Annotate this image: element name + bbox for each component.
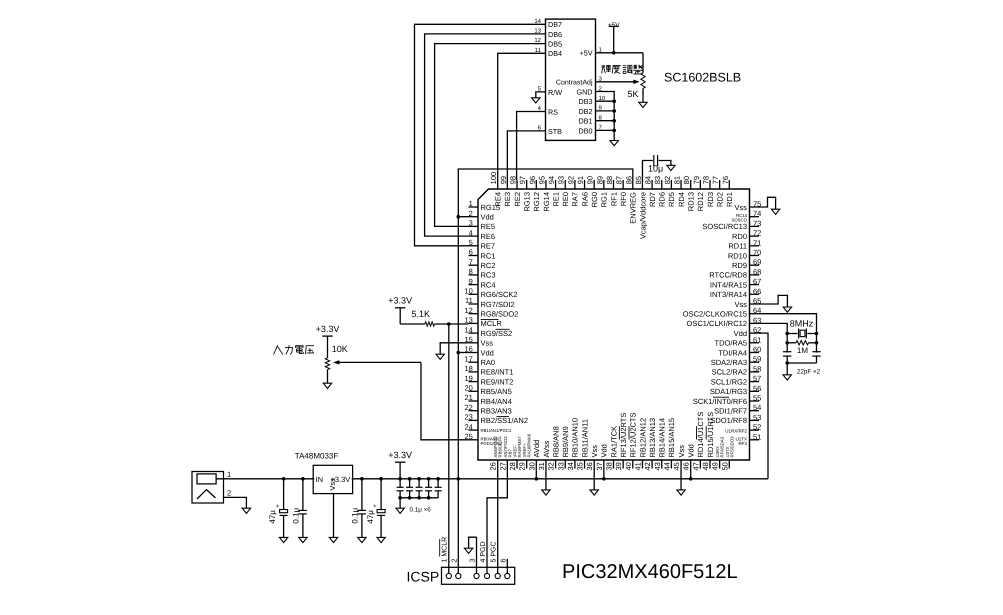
svg-text:69: 69 <box>753 258 761 267</box>
svg-text:RA7: RA7 <box>571 192 580 207</box>
svg-text:92: 92 <box>566 176 575 184</box>
svg-text:26: 26 <box>489 462 498 470</box>
svg-text:28: 28 <box>508 462 517 470</box>
svg-text:51: 51 <box>753 432 761 441</box>
svg-text:GND: GND <box>577 87 593 96</box>
svg-text:Vss: Vss <box>328 478 337 491</box>
svg-text:4: 4 <box>469 228 473 237</box>
svg-text:DB7: DB7 <box>548 20 562 29</box>
svg-text:1M: 1M <box>797 346 808 355</box>
svg-text:RF1: RF1 <box>609 192 618 206</box>
svg-text:+: + <box>276 504 280 510</box>
svg-text:RA1/TCK: RA1/TCK <box>609 426 618 458</box>
svg-text:RD10: RD10 <box>728 251 747 260</box>
svg-text:RD1: RD1 <box>725 192 734 207</box>
svg-text:49: 49 <box>711 462 720 470</box>
svg-text:RD2: RD2 <box>715 192 724 207</box>
svg-text:RB4/AN4: RB4/AN4 <box>481 397 512 406</box>
svg-text:89: 89 <box>595 176 604 184</box>
svg-text:RE6: RE6 <box>481 232 496 241</box>
svg-text:46: 46 <box>682 462 691 470</box>
svg-text:PIC32MX460F512L: PIC32MX460F512L <box>562 561 738 583</box>
svg-text:73: 73 <box>753 219 761 228</box>
svg-text:TDO/RA5: TDO/RA5 <box>714 339 747 348</box>
svg-text:RD15/U1RTS: RD15/U1RTS <box>706 412 715 458</box>
svg-text:RD6: RD6 <box>658 192 667 207</box>
svg-text:RD14/U1CTS: RD14/U1CTS <box>696 412 705 458</box>
svg-text:DB0: DB0 <box>579 126 593 135</box>
svg-text:RE5: RE5 <box>481 222 496 231</box>
svg-text:76: 76 <box>721 176 730 184</box>
svg-text:2: 2 <box>451 559 458 563</box>
svg-text:10: 10 <box>464 287 472 296</box>
svg-text:RE7: RE7 <box>481 242 496 251</box>
svg-text:83: 83 <box>653 176 662 184</box>
svg-text:57: 57 <box>753 374 761 383</box>
svg-text:RG14: RG14 <box>542 192 551 212</box>
svg-text:91: 91 <box>576 176 585 184</box>
svg-text:RG8/SDO2: RG8/SDO2 <box>481 310 519 319</box>
svg-text:27: 27 <box>498 462 507 470</box>
svg-text:45: 45 <box>672 462 681 470</box>
svg-text:RG0: RG0 <box>590 192 599 207</box>
svg-text:80: 80 <box>682 176 691 184</box>
svg-text:DB1: DB1 <box>579 117 593 126</box>
svg-text:RD7: RD7 <box>648 192 657 207</box>
svg-text:RG13: RG13 <box>522 192 531 212</box>
svg-text:12: 12 <box>464 306 472 315</box>
svg-text:RC3: RC3 <box>481 271 496 280</box>
svg-text:100: 100 <box>489 172 498 185</box>
svg-text:93: 93 <box>557 176 566 184</box>
svg-text:RD13: RD13 <box>687 192 696 211</box>
svg-text:RD4: RD4 <box>677 192 686 207</box>
svg-text:48: 48 <box>701 462 710 470</box>
svg-text:87: 87 <box>615 176 624 184</box>
svg-text:SDO1/RF8: SDO1/RF8 <box>710 416 747 425</box>
svg-text:+3.3V: +3.3V <box>388 296 412 306</box>
svg-text:66: 66 <box>753 287 761 296</box>
svg-text:MCLR: MCLR <box>481 319 503 328</box>
svg-text:RD3: RD3 <box>706 192 715 207</box>
svg-text:67: 67 <box>753 277 761 286</box>
svg-text:0.1μ: 0.1μ <box>351 507 360 523</box>
svg-text:6: 6 <box>469 248 473 257</box>
svg-text:U1RX/RF2: U1RX/RF2 <box>725 428 747 433</box>
svg-text:20: 20 <box>464 384 472 393</box>
svg-text:Vdd: Vdd <box>600 444 609 457</box>
svg-text:Vdd: Vdd <box>481 213 494 222</box>
svg-text:40: 40 <box>624 462 633 470</box>
svg-text:RD0: RD0 <box>732 232 747 241</box>
svg-text:Vss: Vss <box>677 445 686 458</box>
svg-text:SCL2/RA2: SCL2/RA2 <box>712 368 747 377</box>
svg-text:68: 68 <box>753 267 761 276</box>
svg-text:3: 3 <box>469 219 473 228</box>
svg-text:RS: RS <box>548 107 558 116</box>
svg-text:RE4: RE4 <box>494 192 503 207</box>
svg-text:23: 23 <box>464 413 472 422</box>
svg-text:DB4: DB4 <box>548 49 562 58</box>
svg-text:72: 72 <box>753 229 761 238</box>
svg-text:ICSP: ICSP <box>407 569 440 585</box>
svg-text:+5V: +5V <box>608 22 620 29</box>
svg-text:9: 9 <box>469 277 473 286</box>
svg-text:74: 74 <box>753 209 761 218</box>
svg-text:70: 70 <box>753 248 761 257</box>
svg-text:38: 38 <box>605 462 614 470</box>
svg-text:0.1μ ×6: 0.1μ ×6 <box>410 507 432 514</box>
svg-text:DB6: DB6 <box>548 30 562 39</box>
svg-text:39: 39 <box>614 462 623 470</box>
svg-text:DB5: DB5 <box>548 40 562 49</box>
svg-text:52: 52 <box>753 423 761 432</box>
svg-text:2: 2 <box>227 488 231 497</box>
svg-text:RG7/SDI2: RG7/SDI2 <box>481 300 515 309</box>
svg-text:5K: 5K <box>627 89 638 99</box>
svg-text:RD12: RD12 <box>696 192 705 211</box>
svg-text:AVdd: AVdd <box>532 440 541 458</box>
svg-text:SC1602BSLB: SC1602BSLB <box>664 71 741 85</box>
svg-text:41: 41 <box>633 462 642 470</box>
svg-text:OSC1/CLKI/RC12: OSC1/CLKI/RC12 <box>687 319 747 328</box>
svg-text:RG1: RG1 <box>600 192 609 207</box>
svg-text:SDA2/RA3: SDA2/RA3 <box>711 358 747 367</box>
svg-text:33: 33 <box>556 462 565 470</box>
svg-text:81: 81 <box>673 176 682 184</box>
svg-text:SOSCO: SOSCO <box>731 218 747 223</box>
svg-text:RE2: RE2 <box>513 192 522 207</box>
svg-text:DB3: DB3 <box>579 97 593 106</box>
svg-text:+3.3V: +3.3V <box>388 450 412 460</box>
svg-text:22pF ×2: 22pF ×2 <box>797 369 821 376</box>
svg-text:1 MCLR: 1 MCLR <box>442 537 449 563</box>
svg-text:47μ: 47μ <box>366 510 375 524</box>
svg-text:DB2: DB2 <box>579 107 593 116</box>
svg-text:STB: STB <box>548 127 562 136</box>
svg-text:RB15/AN15: RB15/AN15 <box>667 418 676 458</box>
svg-text:42: 42 <box>643 462 652 470</box>
svg-text:13: 13 <box>464 316 472 325</box>
svg-text:RC1: RC1 <box>481 251 496 260</box>
svg-text:36: 36 <box>585 462 594 470</box>
svg-text:47μ: 47μ <box>268 510 277 524</box>
svg-text:RD5: RD5 <box>667 192 676 207</box>
svg-text:ContrastAdj: ContrastAdj <box>556 79 593 87</box>
svg-text:19: 19 <box>464 374 472 383</box>
svg-text:58: 58 <box>753 364 761 373</box>
svg-text:RE0: RE0 <box>561 192 570 207</box>
svg-text:1: 1 <box>227 470 231 479</box>
svg-text:INT3/RA14: INT3/RA14 <box>710 290 747 299</box>
svg-text:Vss: Vss <box>734 203 747 212</box>
svg-text:97: 97 <box>518 176 527 184</box>
svg-text:RG9/SS2: RG9/SS2 <box>481 329 513 338</box>
svg-text:29: 29 <box>518 462 527 470</box>
svg-text:78: 78 <box>702 176 711 184</box>
svg-text:31: 31 <box>537 462 546 470</box>
svg-text:21: 21 <box>464 393 472 402</box>
svg-text:Vss: Vss <box>590 445 599 458</box>
svg-text:RE1: RE1 <box>551 192 560 207</box>
svg-text:84: 84 <box>644 176 653 184</box>
svg-text:8: 8 <box>469 267 473 276</box>
svg-text:37: 37 <box>595 462 604 470</box>
svg-text:ENVREG: ENVREG <box>629 192 638 224</box>
svg-text:30: 30 <box>527 462 536 470</box>
svg-text:86: 86 <box>624 176 633 184</box>
svg-text:RA0: RA0 <box>481 358 496 367</box>
svg-text:OSC2/CLKO/RC15: OSC2/CLKO/RC15 <box>683 310 747 319</box>
svg-text:17: 17 <box>464 354 472 363</box>
svg-text:Vdd: Vdd <box>734 329 747 338</box>
svg-text:SCL1/RG2: SCL1/RG2 <box>711 377 747 386</box>
svg-text:14: 14 <box>464 325 472 334</box>
svg-text:0.1μ: 0.1μ <box>292 507 301 523</box>
svg-text:5: 5 <box>469 238 473 247</box>
svg-text:4 PGD: 4 PGD <box>480 541 487 562</box>
svg-text:71: 71 <box>753 238 761 247</box>
svg-text:Vss: Vss <box>734 300 747 309</box>
svg-text:55: 55 <box>753 394 761 403</box>
svg-text:10μ: 10μ <box>648 163 663 173</box>
svg-text:96: 96 <box>528 176 537 184</box>
svg-text:INT4/RA15: INT4/RA15 <box>710 280 747 289</box>
svg-text:SCK1/INT0/RF6: SCK1/INT0/RF6 <box>693 397 747 406</box>
svg-text:RB10/AN10: RB10/AN10 <box>571 418 580 458</box>
svg-text:61: 61 <box>753 335 761 344</box>
svg-text:RF5/SDO3: RF5/SDO3 <box>729 436 734 458</box>
svg-text:RD9: RD9 <box>732 261 747 270</box>
svg-text:RB1/AN1/PGC1: RB1/AN1/PGC1 <box>481 428 512 433</box>
svg-text:SDI1/RF7: SDI1/RF7 <box>714 407 747 416</box>
svg-text:RF0: RF0 <box>619 192 628 206</box>
svg-text:44: 44 <box>662 462 671 470</box>
svg-text:59: 59 <box>753 355 761 364</box>
svg-text:99: 99 <box>499 176 508 184</box>
svg-text:RB14/AN14: RB14/AN14 <box>658 418 667 458</box>
svg-text:RB3/AN3: RB3/AN3 <box>481 407 512 416</box>
svg-text:RTCC/RD8: RTCC/RD8 <box>709 271 747 280</box>
svg-text:34: 34 <box>566 462 575 470</box>
svg-text:RF13/U2RTS: RF13/U2RTS <box>619 413 628 458</box>
svg-text:22: 22 <box>464 403 472 412</box>
svg-text:RB13/AN13: RB13/AN13 <box>648 418 657 458</box>
svg-text:TA48M033F: TA48M033F <box>295 451 339 460</box>
svg-text:RG12: RG12 <box>532 192 541 212</box>
svg-text:AVss: AVss <box>542 440 551 457</box>
svg-text:95: 95 <box>537 176 546 184</box>
svg-text:35: 35 <box>576 462 585 470</box>
svg-text:2: 2 <box>469 209 473 218</box>
svg-text:R/W: R/W <box>548 88 562 97</box>
svg-text:RB2/SS1/AN2: RB2/SS1/AN2 <box>481 416 529 425</box>
svg-text:5 PGC: 5 PGC <box>490 541 497 562</box>
svg-text:Vcap/Vddcore: Vcap/Vddcore <box>638 192 647 239</box>
svg-text:RA6: RA6 <box>580 192 589 207</box>
svg-text:RB8/AN8: RB8/AN8 <box>551 426 560 457</box>
svg-text:RC4: RC4 <box>481 280 496 289</box>
svg-text:53: 53 <box>753 413 761 422</box>
svg-text:RA10/PMA6: RA10/PMA6 <box>527 433 532 457</box>
svg-text:6: 6 <box>500 559 507 563</box>
svg-text:47: 47 <box>691 462 700 470</box>
svg-text:60: 60 <box>753 345 761 354</box>
svg-text:32: 32 <box>547 462 556 470</box>
svg-text:RB5/AN5: RB5/AN5 <box>481 387 512 396</box>
svg-text:43: 43 <box>653 462 662 470</box>
svg-text:3: 3 <box>470 559 477 563</box>
svg-text:Vss: Vss <box>481 339 494 348</box>
svg-text:Vdd: Vdd <box>687 444 696 457</box>
svg-text:77: 77 <box>711 176 720 184</box>
svg-text:24: 24 <box>464 422 472 431</box>
svg-text:54: 54 <box>753 403 761 412</box>
svg-text:RB11/AN11: RB11/AN11 <box>580 419 589 458</box>
svg-text:11: 11 <box>465 296 473 305</box>
svg-text:RC2: RC2 <box>481 261 496 270</box>
svg-text:88: 88 <box>605 176 614 184</box>
svg-text:TDI/RA4: TDI/RA4 <box>718 348 747 357</box>
svg-text:RB12/AN12: RB12/AN12 <box>638 418 647 458</box>
svg-text:8MHz: 8MHz <box>790 319 814 329</box>
svg-text:56: 56 <box>753 384 761 393</box>
svg-text:RD11: RD11 <box>728 242 747 251</box>
svg-text:RE9/INT2: RE9/INT2 <box>481 377 514 386</box>
svg-text:85: 85 <box>634 176 643 184</box>
svg-text:5.1K: 5.1K <box>412 309 431 319</box>
svg-text:1: 1 <box>469 199 473 208</box>
svg-text:90: 90 <box>586 176 595 184</box>
svg-text:IN: IN <box>316 475 324 484</box>
svg-text:50: 50 <box>720 462 729 470</box>
svg-text:RE8/INT1: RE8/INT1 <box>481 368 514 377</box>
svg-text:RG6/SCK2: RG6/SCK2 <box>481 290 518 299</box>
svg-text:RB9/AN9: RB9/AN9 <box>561 426 570 457</box>
svg-text:79: 79 <box>692 176 701 184</box>
svg-text:SOSCI/RC13: SOSCI/RC13 <box>702 222 747 231</box>
svg-text:+3.3V: +3.3V <box>316 324 340 334</box>
svg-text:Vdd: Vdd <box>481 348 494 357</box>
svg-text:RE3: RE3 <box>503 192 512 207</box>
svg-text:10K: 10K <box>332 344 348 354</box>
svg-text:94: 94 <box>547 176 556 184</box>
svg-text:18: 18 <box>464 364 472 373</box>
svg-text:SDA1/RG3: SDA1/RG3 <box>710 387 747 396</box>
svg-text:+: + <box>373 504 377 510</box>
svg-text:7: 7 <box>469 257 473 266</box>
svg-text:RF12/U2CTS: RF12/U2CTS <box>629 412 638 457</box>
svg-text:82: 82 <box>663 176 672 184</box>
svg-text:+5V: +5V <box>580 49 593 58</box>
svg-text:RF3: RF3 <box>738 441 747 446</box>
